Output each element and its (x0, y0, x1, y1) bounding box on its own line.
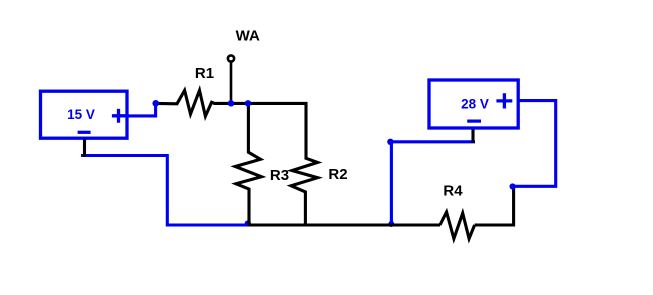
svg-text:R4: R4 (443, 183, 463, 200)
svg-text:28 V: 28 V (461, 96, 489, 111)
svg-text:R3: R3 (270, 167, 289, 184)
svg-text:WA: WA (236, 27, 260, 44)
svg-text:R1: R1 (195, 65, 214, 82)
svg-text:15 V: 15 V (67, 107, 95, 122)
svg-text:R2: R2 (328, 166, 347, 183)
